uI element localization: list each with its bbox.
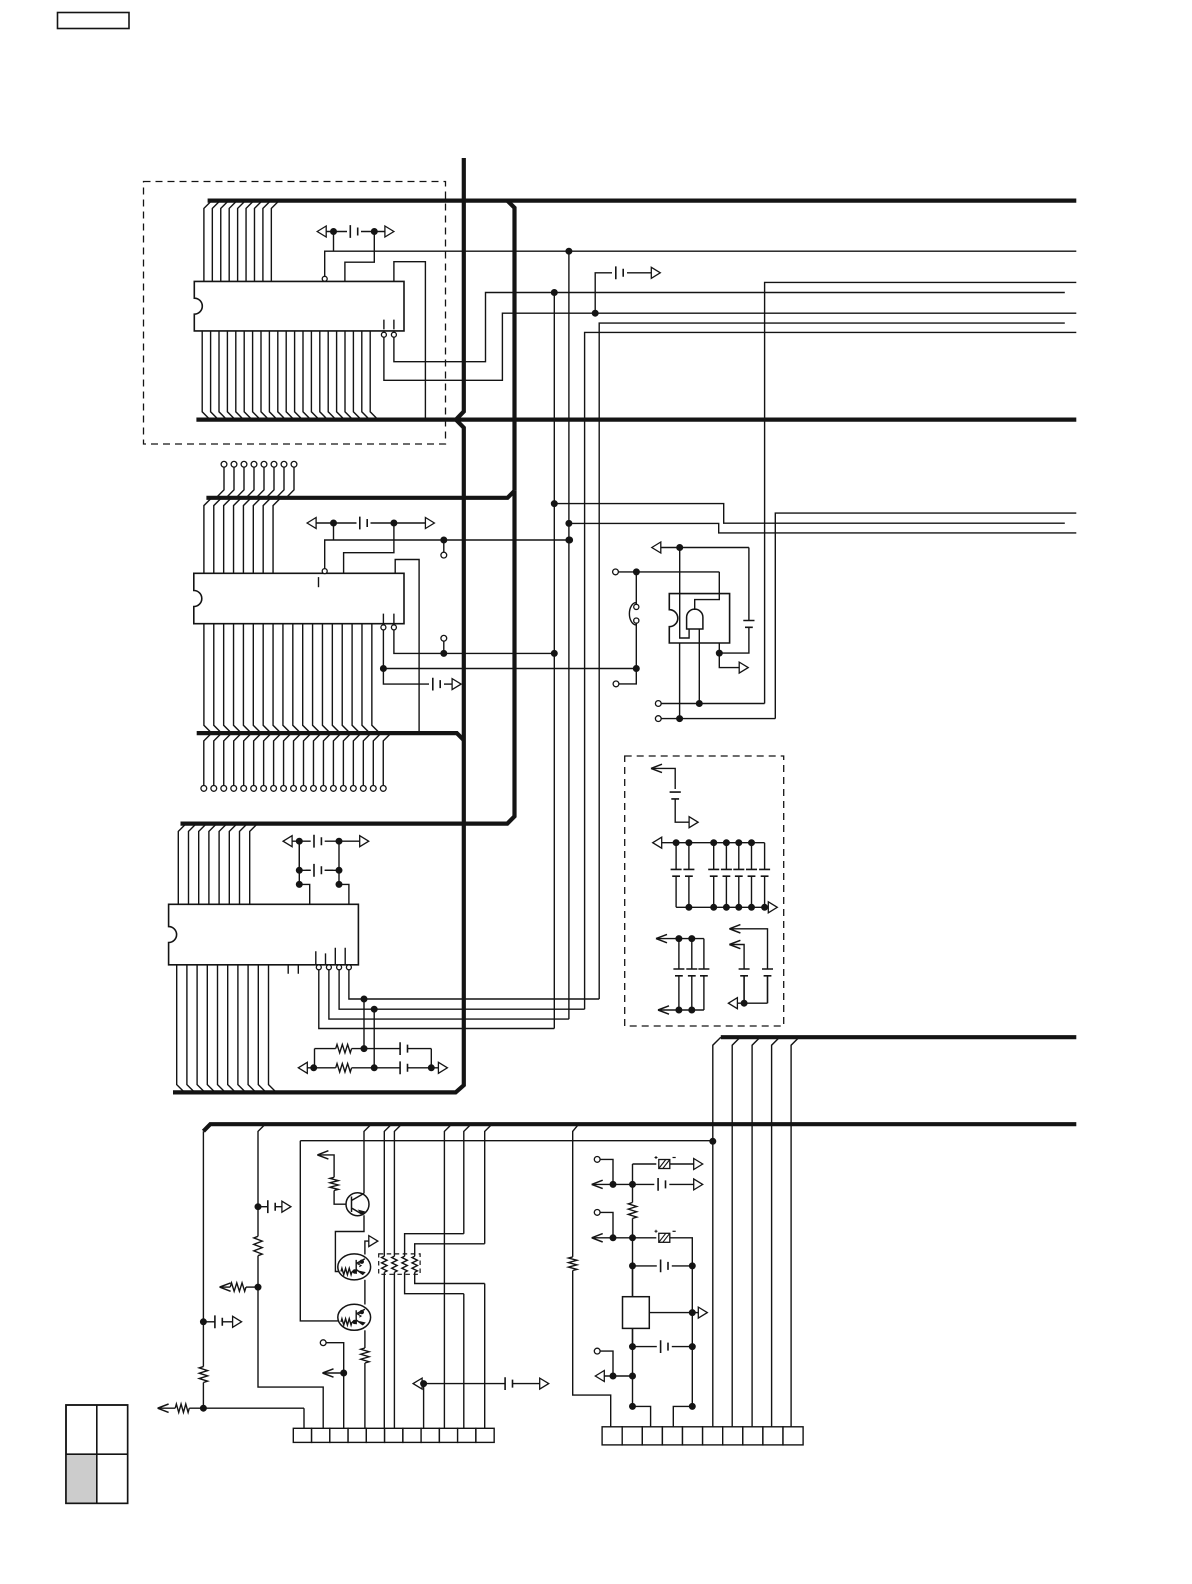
- IC U2 body: [194, 573, 404, 623]
- junction: [716, 650, 722, 656]
- wire: gate pin stub: [679, 643, 681, 719]
- wires: slant bus drops: [713, 1037, 799, 1427]
- wire: drop to connector: [303, 1408, 305, 1428]
- pin circle U2-B: [391, 625, 396, 630]
- wire: U1 right riser to bottom rail: [394, 262, 426, 420]
- pin mark inside U2: [318, 577, 320, 587]
- wire: RA3 riser: [464, 1124, 471, 1428]
- wire: U3 out4 net: [349, 970, 599, 999]
- wire: column continues: [632, 1218, 634, 1406]
- wire: terminal row 2: [655, 716, 661, 722]
- junction: [361, 1046, 367, 1052]
- wire: thin line under lower rail: [300, 1140, 713, 1142]
- resistor R8: [628, 1203, 636, 1219]
- junction: [610, 1181, 616, 1187]
- bus: right slant rail: [721, 1035, 1077, 1039]
- junction: [296, 867, 302, 873]
- wire: vertical v1: [553, 293, 555, 654]
- capacitor C3 with off-page arrows: [307, 517, 434, 530]
- wire: rail2 to connector: [258, 1287, 323, 1428]
- junction: [630, 1263, 636, 1269]
- wire: C3 left to net: [333, 523, 335, 540]
- junction: [689, 1403, 695, 1409]
- junctions group2 bottom: [676, 1007, 695, 1013]
- IC U3 body: [169, 904, 359, 965]
- junction: [421, 1381, 427, 1387]
- junction: [551, 290, 557, 296]
- wire: Q1 emitter to Q2: [335, 1215, 364, 1271]
- pin marks inside U2 right: [383, 614, 394, 624]
- bus: IC1 top rail: [208, 199, 1077, 203]
- wire: net A1 horizontal: [325, 251, 1077, 276]
- junction: [336, 867, 342, 873]
- wire: Q1 collector: [364, 1124, 371, 1193]
- wire: U2 pin B to vertical v1: [394, 630, 554, 654]
- junction: [630, 1403, 636, 1409]
- junction: [371, 1065, 377, 1071]
- wire: U2 pin A long net to switch: [383, 630, 636, 669]
- wire: left column: [632, 1164, 634, 1203]
- wire: rail 2 drop: [258, 1124, 265, 1207]
- terminal circles below U2 rail: [201, 733, 391, 791]
- wire: net to v3: [585, 332, 1077, 1009]
- wire: U2 right riser: [395, 560, 419, 734]
- AND gate symbol inside U4: [687, 609, 703, 629]
- transistor Q3 (digital): [338, 1304, 371, 1330]
- wire: C3 right to U2 pin: [344, 523, 394, 573]
- junction: [689, 1263, 695, 1269]
- capacitor bank rail bottom: [676, 902, 777, 913]
- wire: rail to connector: [573, 1271, 611, 1427]
- wire: row 3 capacitor C25: [633, 1260, 693, 1273]
- wire: cap node to off-page arrow: [719, 653, 748, 673]
- wire: X1 output: [649, 1307, 707, 1318]
- terminal T1: [594, 1157, 600, 1163]
- resistor RA1: [382, 1124, 392, 1428]
- jumper switch S1: [629, 572, 639, 669]
- junction: [610, 1373, 616, 1379]
- connector J2: [602, 1427, 803, 1445]
- transistor Q1: [346, 1193, 369, 1216]
- wire: column bottoms: [633, 1347, 693, 1427]
- pin circle U1-B: [391, 332, 396, 337]
- terminal circles above U2: [216, 461, 297, 497]
- capacitor C18: [762, 969, 773, 1003]
- junction: [336, 881, 342, 887]
- capacitor C2 to off-page: [595, 266, 660, 313]
- wire: net with capacitor C23: [413, 1377, 549, 1390]
- wire: terminal to connector: [320, 1340, 326, 1346]
- wire: vertical v2: [568, 251, 570, 523]
- junction: [331, 520, 337, 526]
- wire: row2 to right column: [670, 1238, 693, 1266]
- capacitor C17: [739, 969, 750, 1003]
- wire: U1 pin A to net: [384, 313, 1076, 380]
- cap group 2 rail top: [656, 934, 704, 942]
- capacitor C22 to off-page: [258, 1200, 291, 1213]
- bus: lower section top rail: [203, 1124, 1076, 1131]
- wire: row 1: [592, 1180, 655, 1188]
- terminal T3: [594, 1348, 600, 1354]
- dashed enclosure capacitor bank: [625, 756, 784, 1026]
- junction: [331, 229, 337, 235]
- junctions bank top: [673, 840, 754, 846]
- wire: row 2: [592, 1234, 657, 1242]
- wire: arrow feed to Q1: [317, 1151, 334, 1178]
- wire: X1 column gaps: [632, 1266, 634, 1347]
- junction: [255, 1204, 261, 1210]
- wire: left rail drop: [202, 1131, 204, 1322]
- junction: [336, 838, 342, 844]
- wire: out4 drop: [363, 999, 365, 1049]
- wire: cap column right: [339, 841, 349, 904]
- junction: [200, 1405, 206, 1411]
- resistor RA3: [402, 1234, 464, 1294]
- junction: [566, 520, 572, 526]
- title box (empty): [58, 13, 130, 29]
- resistor R6 on Q3 emitter: [361, 1330, 369, 1428]
- wire: U1 pin B to net: [394, 293, 1065, 362]
- wire: C1 left to net line: [333, 232, 335, 252]
- terminal stub below net B1: [443, 540, 445, 552]
- capacitor C6: [670, 792, 681, 799]
- junction: [677, 545, 683, 551]
- cap group 2 rail bottom: [658, 1006, 704, 1014]
- wire: row 5: [595, 1371, 632, 1382]
- wire: arrow tap: [323, 1369, 344, 1377]
- IC U1 body: [194, 281, 404, 331]
- junction: [696, 701, 702, 707]
- wire: C6 to off-page arrow: [675, 799, 698, 828]
- wire: cap column left upper: [298, 841, 300, 870]
- junction: [689, 1310, 695, 1316]
- wire: row link right: [430, 1049, 432, 1068]
- junction: [592, 310, 598, 316]
- capacitor C1 with off-page arrows: [317, 225, 394, 238]
- junction: [630, 1373, 636, 1379]
- junction: [630, 1235, 636, 1241]
- wire: bottom net with resistor R2: [158, 1404, 304, 1412]
- wire: off-page arrow to gate input A: [652, 542, 749, 553]
- oscillator X1 body: [623, 1297, 650, 1329]
- wires: U2 bottom pin fan: [204, 624, 380, 733]
- capacitor C5 at gate: [719, 548, 754, 654]
- wire: row 0 varistor: [633, 1163, 657, 1165]
- page locator grid: [66, 1405, 128, 1503]
- junction: [630, 1181, 636, 1187]
- wires: U1 bottom pin fan: [202, 331, 378, 420]
- wire: row0 arrow: [670, 1159, 703, 1170]
- terminal stub above net: [441, 635, 447, 641]
- pin marks below U3: [288, 965, 298, 974]
- wire: Q2 collector arrow: [365, 1236, 378, 1255]
- junction: [441, 537, 447, 543]
- terminal T2: [594, 1210, 600, 1216]
- junction: [710, 1138, 716, 1144]
- wire: AND output to net: [695, 572, 720, 610]
- wire: U3 out3 net: [339, 970, 584, 1009]
- resistor R4 to off-page: [220, 1283, 258, 1291]
- wire: C1 right to U1 pin: [345, 232, 374, 282]
- resistor R5 vertical: [330, 1177, 346, 1204]
- junction: [200, 1319, 206, 1325]
- wire: drop to connector: [423, 1384, 425, 1429]
- wire: row link left: [314, 1049, 316, 1068]
- capacitor bank C7-C13: [671, 843, 771, 908]
- wire: bank feed arrow: [651, 764, 675, 789]
- dashed enclosure around IC1: [144, 182, 446, 445]
- junction: [633, 666, 639, 672]
- IC U4 gate body: [669, 594, 729, 643]
- connector J1: [293, 1428, 494, 1442]
- varistor Z2: [655, 1230, 676, 1243]
- junction: [311, 1065, 317, 1071]
- pin circle U2-A: [381, 625, 386, 630]
- junction: [677, 716, 683, 722]
- resistor array RA dashed box: [379, 1254, 420, 1274]
- wire: riser to net 513: [775, 513, 1076, 719]
- junctions group2 top: [676, 936, 695, 942]
- junction: [255, 1284, 261, 1290]
- junction: [296, 881, 302, 887]
- pin marks inside U3 right: [316, 948, 345, 965]
- pin circle U1 top: [322, 276, 327, 281]
- wires: U3 bottom pin fan: [177, 965, 277, 1093]
- pin marks inside U1: [384, 320, 394, 330]
- RC row 1: [315, 1042, 432, 1055]
- transistor Q2 (digital): [338, 1254, 371, 1280]
- capacitors C14-C16: [673, 939, 709, 1010]
- wire: Q2 emitter to Q3: [364, 1280, 366, 1305]
- wire: riser to net 283: [765, 282, 1077, 703]
- resistor RA4: [412, 1244, 485, 1284]
- wire: stepped net from v1: [554, 504, 1065, 524]
- wire: cap column left: [299, 841, 309, 904]
- capacitor C19 with arrows: [283, 835, 369, 848]
- junction: [361, 996, 367, 1002]
- wires: U2 top pin fan: [204, 498, 281, 574]
- bus: IC2 top rail: [206, 491, 514, 498]
- wire: out3 drop: [373, 1009, 375, 1068]
- junction: [441, 650, 447, 656]
- wire: gate input A drop: [680, 548, 689, 639]
- junction: [371, 229, 377, 235]
- wire: net B1 horizontal: [325, 540, 570, 569]
- varistor Z1: [655, 1156, 676, 1169]
- resistor R1 vertical: [199, 1322, 207, 1408]
- wires: U3 top pin fan: [178, 824, 257, 905]
- capacitor C21 to off-page: [203, 1315, 241, 1328]
- junction: [551, 501, 557, 507]
- wire: row 4 capacitor C26: [633, 1340, 693, 1353]
- capacitor C24: [658, 1178, 703, 1191]
- wire: gate input B from terminal: [655, 701, 661, 707]
- wire: C20 stubs: [299, 869, 339, 871]
- pin circle U1-A: [381, 332, 386, 337]
- resistor RA2: [392, 1124, 402, 1428]
- wire: right column mid: [691, 1266, 693, 1347]
- bus: main vertical rail: [173, 158, 464, 1092]
- pin circles U3 out: [316, 965, 351, 970]
- wire: left terminal net: [613, 569, 619, 575]
- junction: [633, 569, 639, 575]
- wire: mid drop: [444, 1124, 451, 1428]
- wire: U3 out2 net: [329, 970, 569, 1019]
- wire: loop from thin line to Q3 base: [300, 1141, 338, 1321]
- resistor R3 vertical: [254, 1207, 262, 1287]
- wire: stepped net from v2: [569, 523, 1076, 533]
- RC row 2: [298, 1061, 447, 1074]
- capacitor bank rail top: [653, 837, 765, 848]
- junction: [630, 1344, 636, 1350]
- capacitor C20: [306, 864, 334, 877]
- pin circle U2 top: [322, 569, 327, 574]
- resistor R7: [569, 1257, 577, 1271]
- capacitor C4 to off-page: [383, 669, 461, 691]
- junction: [371, 1006, 377, 1012]
- wire: RA4 riser: [485, 1124, 492, 1428]
- wire: lower terminal to switch net: [613, 681, 619, 687]
- bus: vertical rail 2 lower / IC3 top rail: [181, 491, 515, 824]
- wire: U3 out1 net: [319, 970, 555, 1029]
- junction: [296, 838, 302, 844]
- wires: U1 top pin fan: [204, 201, 279, 282]
- wire: net to v4: [599, 323, 1065, 999]
- junction: [391, 520, 397, 526]
- junctions bank bottom: [686, 904, 768, 910]
- junction: [566, 537, 572, 543]
- wire: gate output pin to cap node: [718, 643, 720, 653]
- wire: group3 bottom rail: [728, 998, 767, 1009]
- junction: [566, 248, 572, 254]
- wire: input B riser: [698, 629, 700, 704]
- bus: IC1 bottom rail: [196, 418, 1076, 422]
- junction: [689, 1344, 695, 1350]
- cap group 3 feed 2: [729, 940, 744, 969]
- junction: [551, 650, 557, 656]
- junction: [380, 666, 386, 672]
- junction: [428, 1065, 434, 1071]
- junction: [341, 1370, 347, 1376]
- gate section: [0, 0, 1, 1]
- bus: IC2 bottom rail: [197, 733, 464, 740]
- wire: vertical v2 lower: [568, 523, 570, 1019]
- bus: branch to vertical rail 2: [507, 201, 514, 491]
- junction: [741, 1000, 747, 1006]
- wire: right section rail: [573, 1124, 579, 1257]
- junction: [610, 1235, 616, 1241]
- cap group 3 feed 1: [729, 925, 767, 969]
- wire: vertical v1 lower: [553, 653, 555, 1028]
- junction: [567, 537, 573, 543]
